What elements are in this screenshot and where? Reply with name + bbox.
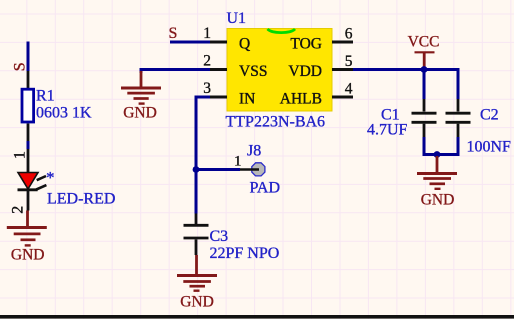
- ground GND under LED: [7, 211, 47, 246]
- svg-text:Q: Q: [239, 36, 250, 53]
- svg-text:GND: GND: [123, 105, 157, 122]
- svg-text:2: 2: [203, 53, 211, 70]
- ground GND at pin 2: [121, 71, 161, 104]
- svg-text:TTP223N-BA6: TTP223N-BA6: [226, 114, 326, 131]
- svg-text:S: S: [169, 25, 178, 42]
- wire R1 to LED: [27, 141, 30, 149]
- svg-text:1: 1: [11, 151, 28, 159]
- pin 4 stub: [332, 96, 353, 99]
- LED LED-RED triangle: [18, 173, 38, 190]
- J8 pin 1: [240, 168, 259, 171]
- svg-text:22PF NPO: 22PF NPO: [210, 245, 280, 262]
- svg-text:GND: GND: [11, 247, 45, 264]
- svg-text:6: 6: [345, 26, 353, 43]
- svg-text:C2: C2: [480, 107, 499, 124]
- pad J8 octagon: [252, 163, 265, 176]
- capacitor C3: [195, 214, 198, 225]
- resistor R1: [27, 71, 30, 88]
- pin 1 stub: [210, 41, 227, 44]
- LED pin 2: [27, 190, 30, 211]
- svg-text:J8: J8: [247, 143, 261, 160]
- svg-text:VCC: VCC: [408, 34, 440, 51]
- svg-text:TOG: TOG: [290, 36, 322, 53]
- svg-text:4: 4: [345, 81, 353, 98]
- wire pin 3 down to C3: [196, 97, 210, 214]
- pin 6 stub: [332, 41, 353, 44]
- LED cathode bar: [18, 188, 38, 191]
- junction node at GND: [434, 151, 441, 158]
- wire C1 C2 bottom: [423, 153, 460, 156]
- svg-text:R1: R1: [36, 88, 55, 105]
- svg-text:C3: C3: [210, 228, 229, 245]
- ground GND under C3: [177, 255, 217, 291]
- wire junction to J8: [196, 168, 240, 171]
- pin 3 stub: [210, 96, 227, 99]
- svg-text:2: 2: [9, 206, 26, 214]
- svg-text:3: 3: [203, 80, 211, 97]
- svg-text:0603 1K: 0603 1K: [36, 104, 92, 121]
- svg-text:*: *: [46, 168, 55, 187]
- LED pin 1: [27, 149, 30, 173]
- svg-text:1: 1: [234, 154, 242, 170]
- svg-text:IN: IN: [239, 91, 255, 108]
- ground GND under C1 C2: [417, 156, 457, 189]
- svg-text:S: S: [11, 62, 28, 71]
- sheet border bar: [0, 315, 514, 319]
- svg-text:100NF: 100NF: [467, 139, 512, 156]
- wire S net to R1: [27, 42, 30, 72]
- pin 5 stub: [332, 68, 353, 71]
- capacitor C1: [423, 70, 426, 100]
- wire S to pin 1: [170, 41, 210, 44]
- U1 notch arc: [268, 29, 296, 33]
- svg-text:5: 5: [345, 53, 353, 70]
- LED emission arrow 1: [37, 176, 46, 180]
- svg-text:GND: GND: [421, 192, 455, 209]
- svg-text:1: 1: [203, 25, 211, 42]
- svg-text:GND: GND: [180, 294, 214, 311]
- capacitor C2: [457, 99, 460, 112]
- junction node at VCC: [421, 66, 428, 73]
- wire pin 2 to GND: [141, 70, 210, 74]
- svg-text:4.7UF: 4.7UF: [367, 122, 408, 139]
- svg-text:VSS: VSS: [239, 63, 267, 80]
- svg-text:AHLB: AHLB: [280, 91, 322, 108]
- svg-text:VDD: VDD: [288, 63, 322, 80]
- LED emission arrow 2: [36, 185, 46, 189]
- wire pin 5 to VCC and C1 C2: [353, 70, 458, 100]
- svg-text:LED-RED: LED-RED: [47, 191, 115, 208]
- IC U1 TTP223N-BA6 body: [227, 29, 332, 112]
- svg-text:PAD: PAD: [250, 180, 281, 197]
- pin 2 stub: [210, 68, 227, 71]
- junction node: [193, 166, 200, 173]
- svg-text:U1: U1: [227, 10, 247, 27]
